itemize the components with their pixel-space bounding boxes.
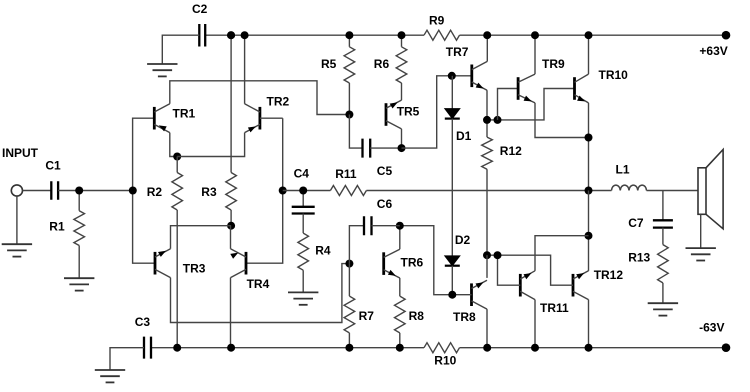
node R2 bottom rail — [173, 344, 181, 352]
wire TR4 collector to rail — [230, 278, 232, 348]
wire TR3 emitter to R3 bottom — [171, 226, 232, 249]
wire input to C1 — [23, 190, 52, 192]
wire C3 to ground — [110, 348, 144, 370]
transistor TR2 — [258, 107, 261, 130]
capacitor C5 — [349, 115, 362, 149]
transistor TR3 — [154, 252, 157, 275]
ground under R13 — [648, 302, 678, 304]
svg-text:R11: R11 — [335, 167, 357, 181]
svg-text:D1: D1 — [456, 129, 472, 143]
node TR7 collector rail — [483, 31, 491, 39]
node input bases junction — [129, 187, 137, 195]
wire TR1 TR3 bases — [133, 118, 155, 263]
transistor TR4 — [245, 252, 248, 275]
wire speaker to ground — [700, 214, 702, 248]
wire TR3 collector feedback to TR6 base — [171, 264, 350, 323]
diode D2 — [445, 256, 460, 266]
transistor TR11 — [519, 274, 522, 297]
svg-text:TR5: TR5 — [397, 105, 420, 119]
node TR2 collector rail — [241, 31, 249, 39]
svg-text:R12: R12 — [500, 144, 522, 158]
capacitor C2 — [199, 24, 205, 47]
wire TR7 emitter down — [486, 90, 488, 120]
node C4 top — [299, 187, 307, 195]
wire TR9 collector to rail — [534, 35, 536, 74]
wire TR4 emitter to R3 bottom — [230, 226, 232, 249]
wire output rail — [366, 190, 611, 192]
node C2 right a — [227, 31, 235, 39]
ground under R4 — [288, 291, 318, 293]
capacitor C3 — [144, 337, 151, 359]
capacitor C4 — [302, 191, 304, 207]
node TR5 base — [345, 111, 353, 119]
wire TR10 emitter to output — [588, 103, 590, 191]
svg-text:C3: C3 — [135, 315, 151, 329]
svg-text:R2: R2 — [147, 185, 163, 199]
transistor TR7 — [470, 65, 473, 88]
wire TR12 collector to rail — [588, 300, 590, 348]
svg-text:C4: C4 — [294, 167, 310, 181]
resistor R7 — [348, 264, 350, 297]
svg-text:L1: L1 — [616, 163, 630, 177]
svg-text:TR10: TR10 — [599, 68, 629, 82]
svg-text:TR11: TR11 — [540, 301, 569, 315]
node driver top a — [483, 116, 491, 124]
wire feedback node to TR4 base — [246, 118, 283, 263]
wire TR1 collector to TR5 base node — [170, 81, 350, 115]
node TR9 collector rail — [531, 31, 539, 39]
node R7 rail — [345, 344, 353, 352]
svg-text:R10: R10 — [434, 354, 456, 368]
transistor TR1 — [153, 107, 156, 130]
wire TR11 emitter link — [535, 236, 589, 271]
wire TR2 base to feedback node — [260, 117, 283, 119]
wire feedback node to R11 — [283, 190, 331, 192]
node TR8 base — [448, 291, 456, 299]
node TR6 base — [345, 260, 353, 268]
node R8 rail — [396, 344, 404, 352]
svg-text:TR4: TR4 — [247, 277, 270, 291]
svg-text:C2: C2 — [192, 2, 208, 16]
resistor R12 — [486, 120, 488, 137]
node output — [585, 187, 593, 195]
svg-text:C5: C5 — [377, 164, 393, 178]
node TR6 collector — [396, 222, 404, 230]
resistor R11 — [330, 186, 366, 196]
svg-text:R4: R4 — [315, 244, 331, 258]
resistor R8 — [399, 278, 401, 296]
resistor R3 — [230, 35, 232, 172]
wire D1 to D2 — [451, 119, 453, 256]
wire C2 to ground — [162, 35, 199, 64]
ground under R1 — [64, 277, 94, 279]
wire TR11 collector to rail — [534, 300, 536, 348]
capacitor C6 — [349, 226, 364, 264]
node R3 bottom — [227, 222, 235, 230]
node driver bottom b — [494, 251, 502, 259]
transistor TR12 — [572, 274, 575, 297]
svg-text:TR12: TR12 — [594, 268, 624, 282]
wire C1 to input node — [58, 190, 133, 192]
resistor R10 — [424, 343, 460, 353]
svg-text:D2: D2 — [455, 233, 471, 247]
node feedback — [279, 187, 287, 195]
terminal -63V — [722, 343, 731, 352]
wire TR9 base — [498, 89, 519, 120]
svg-text:C1: C1 — [45, 159, 61, 173]
node output lower branch — [585, 232, 593, 240]
svg-text:R6: R6 — [374, 57, 390, 71]
node TR7 base — [448, 72, 456, 80]
input terminal — [11, 185, 22, 196]
svg-text:INPUT: INPUT — [2, 146, 39, 160]
transistor TR9 — [517, 77, 520, 100]
speaker — [698, 168, 706, 215]
node R1 top — [75, 187, 83, 195]
wire L1 to speaker — [647, 190, 699, 192]
svg-text:TR3: TR3 — [183, 262, 206, 276]
node R3 top rail — [227, 31, 235, 39]
svg-text:TR7: TR7 — [446, 45, 469, 59]
node TR12 collector rail — [585, 344, 593, 352]
wire driver node to TR10 base — [487, 89, 575, 120]
wire TR9 emitter to output column — [535, 103, 589, 138]
svg-text:TR9: TR9 — [542, 57, 565, 71]
svg-text:TR2: TR2 — [267, 95, 290, 109]
resistor R13 — [658, 245, 669, 283]
terminal +63V — [722, 31, 731, 40]
resistor R5 — [348, 35, 350, 47]
svg-text:C6: C6 — [377, 197, 393, 211]
wire output column to TR12 emitter — [588, 191, 590, 271]
wire TR7 collector to rail — [486, 35, 488, 61]
wire TR12 base — [487, 255, 573, 285]
resistor R9 — [424, 30, 460, 40]
resistor R1 — [78, 191, 80, 211]
capacitor C7 — [662, 191, 664, 221]
wire TR2 collector to rail — [244, 35, 246, 104]
svg-text:TR1: TR1 — [173, 107, 196, 121]
svg-text:R8: R8 — [409, 309, 425, 323]
wire bottom supply rail right segment — [460, 347, 727, 349]
node R6 rail — [398, 31, 406, 39]
svg-text:R1: R1 — [49, 220, 65, 234]
node TR1 TR2 emitters — [173, 153, 181, 161]
inductor L1 — [612, 185, 647, 190]
node driver top b — [494, 116, 502, 124]
transistor TR6 — [382, 252, 385, 275]
node TR8 collector rail — [483, 344, 491, 352]
svg-text:C7: C7 — [628, 216, 644, 230]
capacitor C1 — [51, 181, 58, 200]
ground at input — [16, 196, 18, 244]
svg-text:TR8: TR8 — [453, 310, 476, 324]
svg-text:R7: R7 — [359, 309, 375, 323]
wire TR11 base — [498, 255, 521, 285]
wire top supply rail left segment — [205, 34, 424, 36]
resistor R6 — [401, 35, 403, 47]
wire bottom supply rail left segment — [151, 347, 424, 349]
ground at C3 — [95, 369, 125, 371]
ground at C2 — [147, 63, 177, 65]
svg-text:TR6: TR6 — [401, 256, 424, 270]
node R5 rail — [345, 31, 353, 39]
transistor TR5 — [385, 103, 388, 126]
wire TR10 collector to rail — [588, 35, 590, 74]
wire TR5 emitter to C5 node — [401, 129, 403, 148]
resistor R2 — [176, 157, 178, 173]
diode D1 — [451, 76, 453, 109]
node TR4 collector rail — [227, 344, 235, 352]
svg-text:R9: R9 — [429, 14, 445, 28]
svg-text:R13: R13 — [628, 251, 650, 265]
ground at speaker — [686, 247, 716, 249]
svg-text:R5: R5 — [321, 57, 337, 71]
svg-text:-63V: -63V — [699, 321, 724, 335]
node C5 right — [398, 144, 406, 152]
node TR9 TR10 emitters — [585, 134, 593, 142]
wire TR1 emitter to tail node — [170, 133, 177, 157]
wire TR8 emitter up — [486, 255, 488, 278]
svg-text:R3: R3 — [201, 185, 217, 199]
wire TR6 collector up — [399, 226, 401, 250]
transistor TR10 — [573, 77, 576, 100]
node TR11 collector rail — [531, 344, 539, 352]
node TR10 collector rail — [585, 31, 593, 39]
transistor TR8 — [470, 283, 473, 306]
wire TR2 emitter to tail node — [177, 133, 244, 157]
wire TR6 collector node to TR8 base — [400, 226, 472, 295]
wire top supply rail right segment — [460, 34, 727, 36]
svg-text:+63V: +63V — [699, 44, 727, 58]
node driver bottom a — [483, 251, 491, 259]
wire TR8 collector to rail — [486, 309, 488, 348]
resistor R4 — [298, 233, 309, 270]
wire C5 node to TR7 base — [402, 76, 472, 148]
